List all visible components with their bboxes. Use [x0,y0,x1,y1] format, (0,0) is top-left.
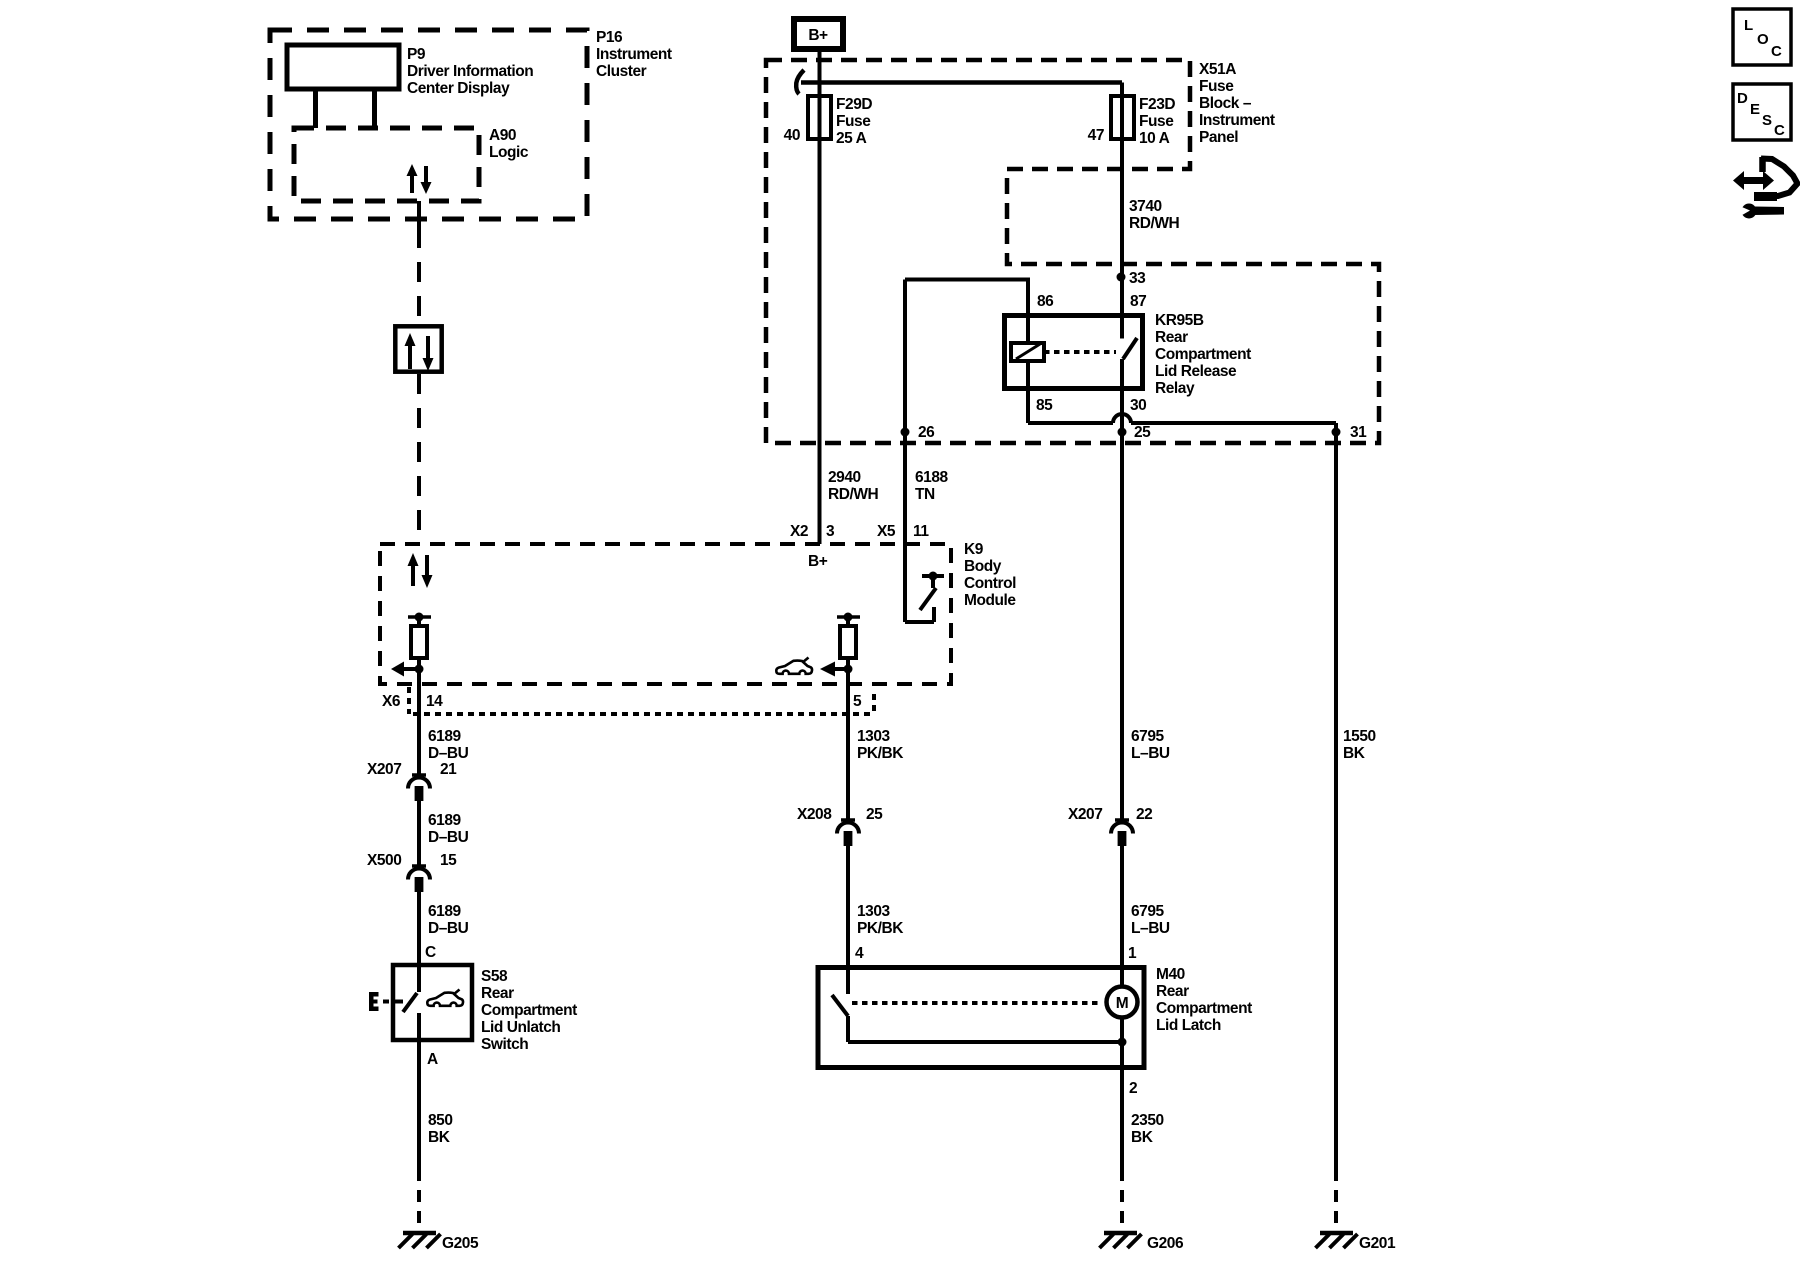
wire 2350 label [1131,1112,1164,1146]
S58 switch blade [403,993,417,1012]
M40 motor M1 [1107,987,1138,1018]
X51A fuse block dashed outline [766,60,1379,443]
svg-text:87: 87 [1130,293,1146,310]
P9 label [407,46,533,97]
svg-text:C: C [1774,122,1785,139]
svg-text:X207: X207 [1068,806,1102,823]
svg-text:14: 14 [426,693,443,710]
svg-text:10 A: 10 A [1139,130,1170,147]
wire 1550 label [1343,728,1376,762]
wire 6795 label 2 [1131,903,1170,937]
splice hook at B+ feed [796,70,804,94]
svg-text:5: 5 [853,693,862,710]
svg-text:F23D: F23D [1139,96,1175,113]
svg-text:Compartment: Compartment [1155,346,1251,363]
wire serial data dashed arrow box to K9 [417,374,421,544]
wire 1550 BK drop to node 31 and down to G201 [1334,423,1338,1169]
wire 1550 dashed ground lead [1334,1169,1338,1231]
svg-text:25: 25 [1134,424,1151,441]
svg-text:X6: X6 [382,693,401,710]
svg-text:Lid Latch: Lid Latch [1156,1017,1221,1034]
K9 body control module dashed box [380,544,951,684]
wire relay 85 from coil bottom [1026,361,1030,423]
svg-text:C: C [425,944,436,961]
svg-text:6795: 6795 [1131,903,1165,920]
fuse F23D 10A [1111,96,1134,139]
svg-text:Lid Release: Lid Release [1155,363,1237,380]
wire 6795 L-BU from X207 to M40 pin 1 [1120,846,1124,987]
svg-text:6188: 6188 [915,469,949,486]
navigation tool icon [1733,157,1798,219]
svg-text:PK/BK: PK/BK [857,920,904,937]
svg-text:Control: Control [964,575,1016,592]
svg-text:1: 1 [1128,945,1137,962]
relay pin 87 label [1130,293,1146,310]
svg-text:G201: G201 [1359,1235,1396,1252]
svg-text:86: 86 [1037,293,1054,310]
K9 internal pull-up resistor left [408,613,431,659]
svg-text:B+: B+ [808,553,828,570]
wire 3740 RD/WH from feed through F23D down to relay 87 [1120,83,1124,339]
svg-text:25 A: 25 A [836,130,867,147]
svg-text:Driver Information: Driver Information [407,63,533,80]
svg-text:Fuse: Fuse [1139,113,1174,130]
A90 label [489,127,529,161]
M40 pin 1 label [1128,945,1137,962]
svg-text:1550: 1550 [1343,728,1376,745]
inline connector X208 pin 25 [797,806,883,846]
svg-text:Rear: Rear [1155,329,1188,346]
svg-text:G206: G206 [1147,1235,1184,1252]
svg-text:PK/BK: PK/BK [857,745,904,762]
S58 label [481,968,577,1053]
wire 2350 dashed ground lead [1120,1169,1124,1231]
F29D label [836,96,872,147]
wire 850 BK from S58 pin A down [417,1013,421,1169]
LOC reference box [1733,9,1791,65]
K9 internal B+ net label [808,553,828,570]
wire M40 internal horizontal to motor [848,1038,1127,1047]
serial data bidirectional arrow box [395,326,441,371]
svg-text:B+: B+ [808,27,828,44]
wire P9 right leg [372,89,377,128]
svg-text:40: 40 [784,127,800,144]
svg-text:Cluster: Cluster [596,63,647,80]
svg-text:31: 31 [1350,424,1367,441]
svg-text:X207: X207 [367,761,401,778]
wire 6188 TN vertical from 86 feed corner down to K9 X5-11 [903,280,907,545]
svg-text:E: E [1750,101,1760,118]
svg-text:Body: Body [964,558,1002,575]
relay pin 86 label [1037,293,1054,310]
B+ battery feed box [794,19,843,49]
svg-text:L: L [1744,17,1753,34]
S58 pin C label [425,944,436,961]
M40 switch blade [832,995,848,1016]
svg-text:3: 3 [826,523,835,540]
svg-text:L–BU: L–BU [1131,920,1170,937]
wire 2940 label [828,469,879,503]
wire serial data dashed A90 to arrow box [417,228,421,324]
svg-text:C: C [1771,43,1782,60]
svg-text:KR95B: KR95B [1155,312,1204,329]
svg-text:D: D [1737,90,1748,107]
wire relay 86 drop into coil [1026,278,1030,344]
svg-text:11: 11 [913,523,929,540]
svg-text:15: 15 [440,852,457,869]
fuse F29D 25A [808,96,831,139]
wire 3740 label [1129,198,1180,232]
KR95B label [1155,312,1251,397]
svg-text:Compartment: Compartment [1156,1000,1252,1017]
svg-text:1303: 1303 [857,728,891,745]
M40 switch to motor dashed link [852,1001,1100,1005]
svg-text:D–BU: D–BU [428,745,469,762]
S58 pin A label [427,1051,438,1068]
wire relay 86 feed horizontal [905,278,1028,282]
svg-text:RD/WH: RD/WH [828,486,879,503]
svg-text:K9: K9 [964,541,984,558]
wire M40 internal switch leg [846,1016,850,1042]
svg-text:TN: TN [915,486,935,503]
K9 label [964,541,1016,609]
svg-text:2: 2 [1129,1080,1137,1097]
wire 850 dashed ground lead [417,1169,421,1231]
svg-text:F29D: F29D [836,96,872,113]
wire 1303 label 1 [857,728,904,762]
F29D pin 40 label [784,127,800,144]
wire 850 label [428,1112,453,1146]
svg-text:X2: X2 [790,523,808,540]
svg-text:6189: 6189 [428,903,462,920]
P16 instrument cluster dashed box [270,30,587,219]
node 26 [901,424,936,441]
svg-text:22: 22 [1136,806,1152,823]
S58 rear compartment lid unlatch switch box [393,965,472,1040]
A90 logic dashed box [294,128,479,201]
svg-text:33: 33 [1129,270,1146,287]
DESC reference box [1733,84,1791,140]
svg-text:2940: 2940 [828,469,861,486]
inline connector X207 pin 22 [1068,806,1152,846]
svg-text:Center Display: Center Display [407,80,510,97]
svg-text:Switch: Switch [481,1036,528,1053]
relay coil to contact dashed link [1044,350,1116,354]
K9 connector pin label X2 3 [790,523,835,540]
svg-text:D–BU: D–BU [428,829,469,846]
relay contact blade [1123,338,1137,359]
relay pin 30 label [1130,397,1146,414]
relay KR95B box [1005,316,1143,389]
svg-text:X208: X208 [797,806,832,823]
ground G201 [1316,1233,1396,1252]
K9 connector pin label X5 11 [877,523,929,540]
inline connector X500 pin 15 [367,852,457,892]
wire 1303 PK/BK from resistor down to X208-25 [846,658,850,820]
svg-text:30: 30 [1130,397,1146,414]
svg-text:Compartment: Compartment [481,1002,577,1019]
svg-text:6795: 6795 [1131,728,1165,745]
wire 6188 label [915,469,949,503]
svg-text:Block –: Block – [1199,95,1252,112]
svg-text:BK: BK [428,1129,451,1146]
svg-text:47: 47 [1088,127,1104,144]
wire 6189 label 1 [428,728,469,762]
S58 car icon [427,990,463,1006]
node 33 [1117,270,1147,287]
M40 pin 2 label [1129,1080,1137,1097]
svg-text:Fuse: Fuse [1199,78,1234,95]
K9 internal car icon [776,658,812,674]
wire 6189 D-BU between X207 and X500 [417,801,421,866]
F23D pin 47 label [1088,127,1104,144]
svg-text:X51A: X51A [1199,61,1236,78]
svg-text:Module: Module [964,592,1016,609]
svg-text:A90: A90 [489,127,516,144]
wire 6795 L-BU relay 30 down through X207-22 to M40 pin 1 [1120,359,1124,820]
svg-text:26: 26 [918,424,935,441]
M40 pin 4 label [855,945,864,962]
wire 6189 label 3 [428,903,469,937]
svg-text:Instrument: Instrument [1199,112,1275,129]
svg-text:850: 850 [428,1112,453,1129]
wire P9 left leg [313,89,318,128]
svg-text:Rear: Rear [1156,983,1189,1000]
K9 internal signal arrow left [391,662,424,677]
wire 1303 PK/BK from X208 to M40 pin 4 [846,846,850,994]
X6 pin labels [382,693,862,710]
wire 6795 label 1 [1131,728,1170,762]
svg-text:3740: 3740 [1129,198,1162,215]
P16 label [596,29,672,80]
A90 up/down data arrows [407,164,432,194]
svg-text:2350: 2350 [1131,1112,1164,1129]
svg-text:BK: BK [1131,1129,1154,1146]
svg-text:A: A [427,1051,438,1068]
P9 driver information center display box [287,45,399,89]
ground G206 [1100,1233,1184,1252]
svg-text:Panel: Panel [1199,129,1238,146]
svg-text:P16: P16 [596,29,623,46]
svg-text:Relay: Relay [1155,380,1195,397]
svg-text:BK: BK [1343,745,1366,762]
M40 rear compartment lid latch box [818,968,1144,1068]
wire 6189 D-BU from X500 to S58 [417,892,421,992]
inline connector X207 pin 21 [367,761,457,801]
S58 pin E contact glyph [369,992,403,1011]
svg-text:25: 25 [866,806,883,823]
wire 6189 label 2 [428,812,469,846]
K9 internal up/down data arrows [408,553,433,588]
svg-text:Fuse: Fuse [836,113,871,130]
svg-text:Instrument: Instrument [596,46,672,63]
wire M40 motor to pin 2 [1120,1018,1124,1169]
wire A90 to instrument cluster edge [417,201,421,228]
svg-text:1303: 1303 [857,903,891,920]
svg-text:85: 85 [1036,397,1053,414]
K9 internal pull-up resistor right [837,613,860,659]
wire B+ horizontal feed to F23D [801,80,1122,85]
svg-text:S58: S58 [481,968,508,985]
svg-text:M40: M40 [1156,966,1185,983]
svg-text:D–BU: D–BU [428,920,469,937]
svg-text:Lid Unlatch: Lid Unlatch [481,1019,560,1036]
svg-text:6189: 6189 [428,728,462,745]
node 25 [1118,424,1152,441]
X51A label [1199,61,1275,146]
wire 6189 D-BU from resistor down to X207-21 [417,658,421,775]
svg-text:21: 21 [440,761,457,778]
K9 internal driver switch for relay coil [905,544,944,622]
node 31 [1332,424,1368,441]
wire B+ vertical feed to F29D and down as circuit 2940 to K9 X2-3 [818,49,822,544]
svg-text:RD/WH: RD/WH [1129,215,1180,232]
relay pin 85 label [1036,397,1053,414]
svg-text:O: O [1757,31,1769,48]
F23D label [1139,96,1175,147]
svg-text:S: S [1762,112,1772,129]
svg-text:P9: P9 [407,46,426,63]
svg-text:M: M [1116,995,1128,1012]
svg-text:X500: X500 [367,852,401,869]
svg-text:Logic: Logic [489,144,529,161]
svg-text:Rear: Rear [481,985,514,1002]
X6 connector strip of K9 [409,687,874,714]
wire 85 horizontal run with hop over pin 30 wire [1028,414,1336,423]
svg-text:6189: 6189 [428,812,462,829]
relay coil [1011,343,1044,361]
ground G205 [399,1233,479,1252]
wire 1303 label 2 [857,903,904,937]
svg-text:G205: G205 [442,1235,479,1252]
K9 internal signal arrow right [820,662,853,677]
svg-text:X5: X5 [877,523,896,540]
M40 label [1156,966,1252,1034]
svg-text:L–BU: L–BU [1131,745,1170,762]
svg-text:4: 4 [855,945,864,962]
